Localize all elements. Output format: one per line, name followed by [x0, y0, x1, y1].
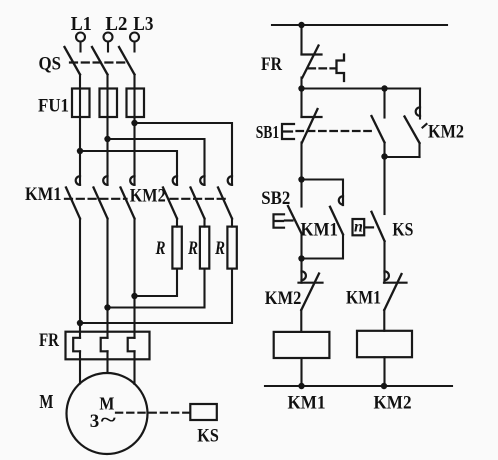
svg-text:R: R: [214, 238, 225, 259]
svg-text:KM1: KM1: [288, 393, 326, 414]
svg-text:n: n: [354, 219, 363, 236]
svg-text:3: 3: [90, 411, 100, 432]
svg-text:R: R: [155, 238, 166, 259]
svg-text:SB1: SB1: [256, 122, 280, 142]
svg-text:L3: L3: [133, 13, 153, 35]
svg-text:QS: QS: [39, 54, 62, 75]
svg-text:KM2: KM2: [374, 393, 412, 414]
svg-text:KS: KS: [197, 426, 219, 447]
svg-text:FR: FR: [261, 54, 282, 75]
svg-text:M: M: [39, 392, 53, 413]
svg-text:KM2: KM2: [265, 288, 302, 309]
svg-text:FR: FR: [39, 330, 59, 351]
svg-text:L2: L2: [105, 13, 127, 35]
svg-text:KM1: KM1: [346, 289, 381, 309]
svg-text:FU1: FU1: [38, 96, 69, 117]
svg-text:R: R: [187, 238, 198, 259]
svg-text:~: ~: [101, 409, 117, 431]
svg-text:KM2: KM2: [130, 186, 166, 207]
svg-text:KS: KS: [392, 220, 413, 241]
svg-text:KM2: KM2: [428, 122, 464, 143]
svg-text:KM1: KM1: [25, 184, 62, 205]
svg-text:KM1: KM1: [301, 221, 339, 241]
svg-text:L1: L1: [71, 13, 92, 35]
svg-text:SB2: SB2: [261, 188, 290, 209]
